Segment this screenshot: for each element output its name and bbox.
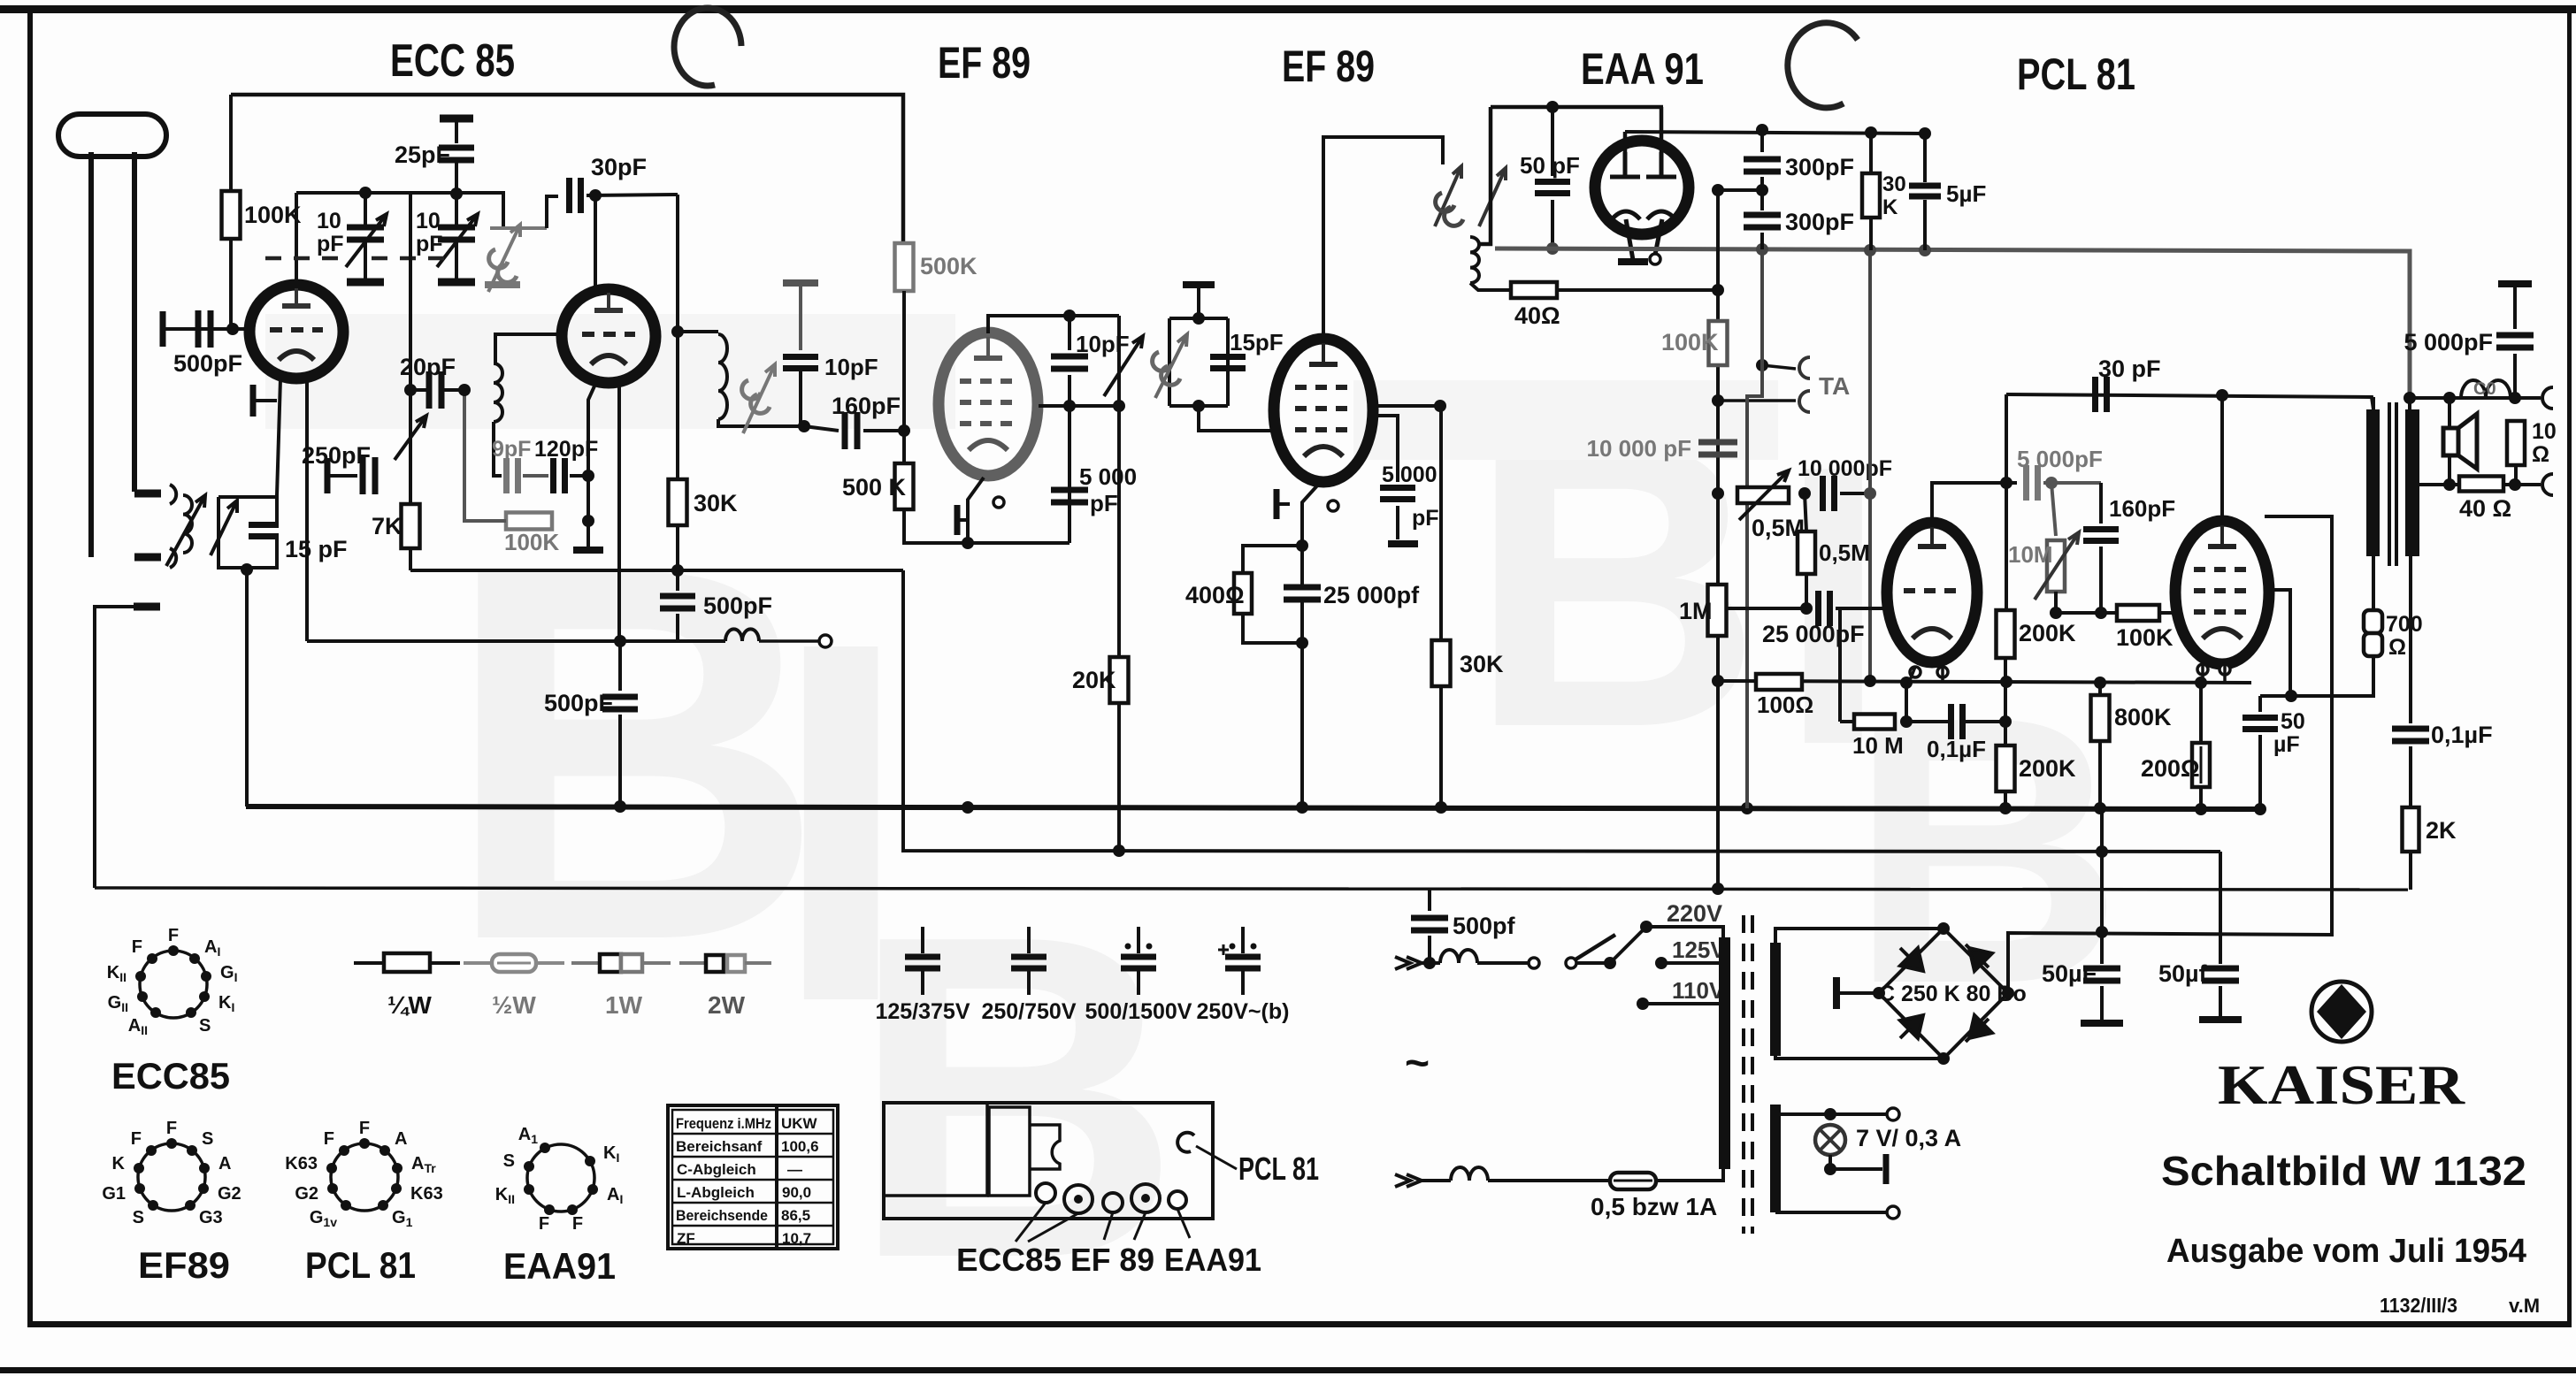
chassis inner box — [884, 1103, 987, 1196]
10M feedback arrow — [2035, 532, 2079, 600]
capacitor 25pF — [439, 148, 474, 160]
svg-text:½W: ½W — [492, 991, 536, 1019]
wire EF89a top — [988, 316, 1119, 333]
wire 25000 stems — [1300, 546, 1304, 586]
wire 250pF left lead — [329, 474, 357, 478]
wire 500pF left lead — [165, 327, 193, 331]
svg-text:F: F — [359, 1119, 370, 1138]
node 1942 cath bus — [1712, 675, 1724, 687]
svg-text:500pf: 500pf — [1453, 913, 1516, 939]
wire triode top — [1932, 483, 2017, 524]
svg-text:F: F — [324, 1129, 334, 1149]
wire 300pF bottom — [1760, 233, 1764, 249]
leader EF89 b — [1134, 1212, 1146, 1240]
legend cap 250/750V — [1011, 927, 1046, 995]
node vol top — [1712, 487, 1724, 500]
svg-text:10M: 10M — [2008, 541, 2053, 568]
svg-text:30: 30 — [1882, 172, 1906, 196]
resistor 7K — [402, 504, 420, 548]
antenna head — [58, 114, 166, 157]
wire 120pF right — [570, 474, 588, 478]
capacitor 300pF second — [1744, 215, 1781, 227]
node tank bottom — [241, 563, 253, 576]
node bus 1975 — [1741, 802, 1753, 814]
resistor 500K screen — [895, 243, 914, 291]
antenna terminal bar lower — [134, 554, 161, 562]
wire 50pF stem — [1551, 107, 1554, 176]
resistor 100K grid V1b — [506, 513, 552, 530]
resistor 30K osc — [669, 479, 687, 525]
svg-text:ECC 85: ECC 85 — [390, 35, 515, 87]
node 766 tank top — [671, 325, 684, 338]
wire 01uF right — [1963, 720, 2005, 723]
svg-text:S: S — [133, 1208, 144, 1227]
svg-text:160pF: 160pF — [2109, 495, 2175, 522]
leg triode 1 — [1909, 667, 1915, 683]
node 220V — [1640, 921, 1652, 933]
antenna coupling hooks — [170, 485, 176, 568]
svg-text:EAA 91: EAA 91 — [1581, 44, 1704, 94]
wire 300pF mid — [1760, 177, 1764, 210]
mains to switch — [1477, 961, 1528, 965]
svg-text:40 Ω: 40 Ω — [2459, 495, 2511, 522]
wire IF3 to 40ohm — [1470, 283, 1511, 290]
capacitor 20pF — [429, 371, 441, 409]
node earth 1942 — [1712, 883, 1724, 895]
resistor 100 ohm inline — [1756, 674, 1802, 690]
chassis tuner block — [989, 1107, 1030, 1196]
node tank2 top — [1192, 312, 1205, 325]
pickup coil — [725, 629, 759, 641]
capacitor 50uF second — [2202, 968, 2239, 981]
earth line long — [95, 888, 2408, 890]
earth lead wire — [95, 607, 134, 888]
wire 120pF down — [586, 476, 590, 521]
oscillator coil L2 — [494, 363, 502, 422]
chassis bar 50uF second — [2199, 1016, 2242, 1023]
svg-text:125/375V: 125/375V — [875, 999, 970, 1024]
wire 10pF anode stem — [1068, 316, 1071, 350]
svg-text:500pF: 500pF — [703, 592, 772, 619]
speaker symbol — [2443, 414, 2477, 469]
resistor 30K anode — [1432, 640, 1451, 686]
triode V1a ECC85 — [249, 285, 343, 378]
wire 766 to cap — [676, 570, 679, 591]
svg-text:10: 10 — [317, 209, 341, 233]
svg-text:C0: C0 — [2473, 379, 2496, 399]
wire 2590 up — [2267, 590, 2290, 696]
svg-text:C-Abgleich: C-Abgleich — [677, 1161, 756, 1178]
triode V1b ECC85 — [562, 289, 655, 383]
svg-text:100K: 100K — [2116, 624, 2173, 651]
tank cap lower stem — [247, 538, 277, 568]
node 200ohm top — [2195, 677, 2207, 689]
wire cathode to bus — [1300, 643, 1304, 807]
wire 500pF osc2 stem — [618, 641, 622, 691]
EAA91 right leg terminal — [1650, 254, 1660, 264]
svg-text:S: S — [202, 1129, 213, 1149]
variable capacitor arrow input tank — [211, 501, 237, 555]
svg-text:5 000pF: 5 000pF — [2403, 329, 2493, 355]
grid return stub EF89b — [1276, 502, 1290, 506]
svg-text:UKW: UKW — [781, 1115, 818, 1132]
node row 2324 — [2050, 607, 2062, 619]
legend resistor half W — [464, 961, 492, 965]
capacitor 30pF — [570, 178, 581, 213]
wire V1b grid — [495, 334, 563, 363]
svg-text:pF: pF — [416, 232, 443, 256]
svg-text:50µF: 50µF — [2042, 960, 2097, 987]
wire screen g2 line — [2008, 516, 2332, 993]
svg-text:K63: K63 — [410, 1184, 443, 1204]
svg-text:L-Abgleich: L-Abgleich — [677, 1184, 755, 1201]
leg pentode 1 — [2201, 664, 2204, 682]
legend resistor 1W — [571, 961, 600, 965]
svg-text:400Ω: 400Ω — [1185, 582, 1245, 608]
svg-text:A: A — [395, 1129, 407, 1149]
pin triode 1 — [1910, 667, 1920, 677]
capacitor 10pF trimmer 2 — [438, 227, 475, 240]
svg-text:160pF: 160pF — [832, 393, 901, 419]
leader EAA91 a — [1177, 1209, 1190, 1238]
node 110V — [1637, 998, 1649, 1010]
wire 25pF lower stem — [455, 161, 458, 226]
wire cathode V1b — [588, 380, 597, 476]
capacitor 500pF osc 2 — [602, 697, 638, 709]
node anode row 1265 — [1113, 400, 1125, 412]
node det row 2176 — [1919, 127, 1931, 140]
ground bar V1a — [250, 385, 257, 417]
svg-text:20pF: 20pF — [400, 354, 456, 380]
svg-text:110V: 110V — [1672, 977, 1725, 1004]
terminal hook speaker top — [2542, 387, 2553, 409]
terminal TA lower hook — [1799, 391, 1810, 412]
pot arrow — [1739, 470, 1789, 520]
mains choke lower — [1451, 1167, 1488, 1181]
node 20pF left — [404, 384, 417, 396]
wire 10ohm down — [2514, 465, 2518, 485]
wire 50uF1 down — [2100, 986, 2104, 1021]
IF coil arrow gray — [743, 364, 775, 433]
antenna mast right wire — [132, 152, 137, 492]
node cathode net bottom — [1296, 637, 1308, 649]
wire secondary bottom — [2409, 556, 2412, 723]
wire 125V — [1661, 961, 1723, 965]
power transformer primary winding — [1719, 937, 1730, 1169]
node bus 1472 — [1296, 801, 1308, 814]
wire 400 bottom — [1243, 614, 1302, 643]
bridge rectifier C250K80 — [1879, 929, 2008, 1059]
wire det top row — [1625, 132, 1925, 134]
svg-text:F: F — [131, 1129, 142, 1149]
resistor 10 ohm — [2507, 421, 2525, 465]
wire tank2 stem — [1197, 285, 1200, 318]
legend resistor quarter W — [354, 961, 384, 965]
wire 1M to cap — [1726, 607, 1812, 610]
trimmer1 ground bar — [347, 279, 384, 287]
pin triode 2 — [1937, 667, 1948, 677]
wire 30pF to node — [586, 195, 678, 195]
svg-text:220V: 220V — [1667, 900, 1722, 927]
wire 200K1 down — [2004, 658, 2007, 808]
EAA91 diode innards — [1610, 152, 1676, 260]
wire grid V1a — [193, 327, 249, 331]
wire anode chain down — [1439, 406, 1443, 807]
svg-text:K63: K63 — [285, 1154, 318, 1173]
wire trimmer2 bottom — [455, 242, 458, 279]
resistor 10M feedback — [2047, 540, 2065, 592]
antenna coil tuning arrow — [166, 495, 205, 566]
svg-text:500pF: 500pF — [544, 690, 613, 716]
power transformer heater winding — [1770, 1105, 1781, 1212]
wire 10pF stem — [799, 283, 802, 350]
svg-text:300pF: 300pF — [1785, 209, 1854, 235]
IF3 trimmer arrow 2 — [1479, 168, 1506, 226]
wire 160pF down — [2099, 547, 2103, 613]
border page bottom line — [0, 1367, 2576, 1373]
trimmer 2 arrow — [437, 214, 478, 267]
power transformer HT winding — [1770, 943, 1781, 1056]
tank2 frame — [1169, 317, 1228, 320]
wire V1a grid return — [256, 399, 277, 402]
terminal bar tank2 — [1183, 281, 1215, 288]
speaker stem bottom — [2448, 455, 2451, 485]
wire 30pF row — [2006, 394, 2373, 409]
antenna terminal bar upper — [134, 490, 161, 498]
bulb row — [1830, 1167, 1882, 1171]
terminal bar 500pF — [160, 311, 166, 347]
resistor 100K anode V1a — [222, 191, 241, 239]
leader ECC85 a — [1016, 1203, 1046, 1242]
resistor 200K first — [1997, 610, 2015, 658]
wire tank2 bottom — [718, 419, 804, 426]
wire row 645 — [410, 569, 903, 572]
cathode bus PCL — [1718, 681, 2251, 683]
node bridge top — [1937, 922, 1950, 935]
wire 100K bottom — [229, 239, 233, 329]
svg-text:G2: G2 — [295, 1184, 318, 1204]
wire tank2 top — [678, 330, 718, 333]
wire grid branch down — [1838, 608, 1842, 722]
wire 20K down — [1117, 703, 1121, 851]
wire 1992 down — [1760, 249, 1764, 365]
node rail 2843 — [2509, 392, 2521, 404]
node B+ speaker — [2403, 392, 2416, 404]
trimmer2 ground bar — [438, 279, 475, 287]
capacitor 10pF grid — [783, 357, 818, 369]
ganged tuning dashed link — [372, 256, 447, 261]
KAISER logo — [2311, 982, 2372, 1042]
svg-text:~: ~ — [1405, 1040, 1430, 1087]
svg-text:25pF: 25pF — [395, 141, 450, 168]
svg-text:50 pF: 50 pF — [1520, 152, 1580, 179]
svg-text:100K: 100K — [244, 202, 302, 228]
wire 700 down — [2291, 656, 2373, 696]
node cathode row a — [962, 537, 974, 549]
terminal bar 5000pF out — [2498, 280, 2532, 287]
resistor 0,5M grid — [1798, 531, 1815, 574]
wire grid row pentode — [2056, 611, 2119, 615]
node bus 1094 — [962, 801, 974, 814]
wire triode cath drop — [1905, 683, 1908, 722]
wire TA lower — [1718, 399, 1796, 402]
leg pentode 2 — [2223, 664, 2227, 682]
bridge diode bottom-left — [1900, 1015, 1923, 1038]
IF3 trimmer arrow 1 — [1435, 166, 1461, 226]
wire to fuse — [1488, 1179, 1610, 1182]
wire 200ohm down — [2199, 787, 2203, 809]
svg-text:40Ω: 40Ω — [1514, 302, 1560, 329]
terminal bar 250pF — [325, 458, 331, 493]
svg-text:0,5M: 0,5M — [1819, 539, 1870, 566]
switch lever — [1575, 935, 1615, 959]
svg-text:200K: 200K — [2019, 620, 2076, 646]
capacitor 5000pF screen1 — [1051, 490, 1088, 502]
wire V1b anode up — [594, 195, 597, 289]
wire det mid link — [1718, 190, 1762, 889]
svg-text:200K: 200K — [2019, 755, 2076, 782]
capacitor 0,1uF grid — [1951, 704, 1963, 739]
wire 50uF2 stem — [2219, 852, 2222, 964]
svg-text:pF: pF — [1090, 490, 1118, 516]
svg-text:F: F — [539, 1214, 549, 1234]
svg-text:F: F — [166, 1119, 177, 1138]
node grid EF89a — [898, 424, 910, 437]
wire 100K to tube — [2159, 611, 2176, 615]
wire 10M left — [1840, 720, 1854, 723]
bulb down — [1828, 1155, 1832, 1169]
svg-text:Ω: Ω — [2388, 635, 2406, 660]
heater earth bar — [1883, 1154, 1890, 1184]
node bus 2374 — [2094, 802, 2106, 814]
output transformer primary winding — [2366, 409, 2380, 556]
wire pickup lead — [759, 639, 819, 643]
potentiometer 0,5M — [1737, 487, 1789, 503]
node tank2 bottom — [1192, 400, 1205, 412]
resistor 40 ohm speaker — [2459, 477, 2503, 492]
svg-text:500 K: 500 K — [842, 474, 907, 501]
capacitor 500pF osc 1 — [660, 596, 695, 608]
wire 5uF down — [1923, 200, 1927, 250]
switch contact 1 — [1529, 958, 1539, 968]
svg-text:TA: TA — [1819, 372, 1850, 400]
node 25000 left — [1800, 602, 1813, 615]
capacitor 25000pF cathode — [1284, 587, 1321, 600]
node rail 2769 — [2443, 392, 2456, 404]
node trimmer1 top — [359, 187, 372, 199]
decor watermark bands — [265, 314, 1778, 460]
node 962 1265 — [1113, 845, 1125, 857]
leader EF89 a — [1104, 1212, 1113, 1240]
node cath 2155 — [1900, 677, 1913, 689]
svg-text:10: 10 — [416, 209, 441, 233]
wire V1a anode down — [305, 380, 309, 641]
socket diagram PCL81 — [285, 1119, 442, 1229]
node pot right — [1798, 487, 1811, 500]
wire AVC chain — [409, 193, 412, 570]
svg-text:10 M: 10 M — [1852, 732, 1904, 759]
node det row 2115 — [1865, 126, 1877, 139]
wire 9pF to 120pF — [523, 474, 548, 478]
svg-text:1M: 1M — [1679, 598, 1713, 624]
svg-text:250/750V: 250/750V — [981, 999, 1076, 1024]
wire cap to row — [676, 614, 679, 641]
chassis tube hole 5 — [1169, 1191, 1186, 1209]
wire tank2 to grid — [1199, 406, 1275, 431]
node bus det 2114 — [1864, 244, 1876, 256]
bridge diode top-right — [1966, 944, 1992, 971]
svg-text:0,1µF: 0,1µF — [2431, 722, 2493, 748]
chassis tube hole 4 — [1131, 1184, 1160, 1212]
tank2 left leg — [1168, 318, 1171, 406]
svg-text:10: 10 — [2532, 419, 2557, 444]
node det row 1992 — [1756, 124, 1768, 136]
bridge diode top-left — [1900, 948, 1923, 971]
wire V1a cathode — [277, 378, 280, 495]
node 160pF left — [798, 420, 810, 432]
node bus 2267 — [1999, 802, 2012, 814]
node 5000pF left — [2000, 477, 2012, 489]
svg-text:v.M: v.M — [2509, 1295, 2540, 1317]
svg-text:500/1500V: 500/1500V — [1085, 999, 1192, 1024]
selector slant — [1610, 927, 1646, 963]
wire 25000 stem lower — [1300, 600, 1304, 643]
wire 25pF stem — [455, 118, 458, 143]
wire 10M2 stem — [2051, 483, 2056, 536]
svg-text:10 000pF: 10 000pF — [1798, 456, 1892, 481]
svg-text:Bereichsanf: Bereichsanf — [676, 1138, 763, 1155]
svg-text:1132/III/3: 1132/III/3 — [2380, 1294, 2457, 1317]
leader ECC85 b — [1028, 1213, 1078, 1242]
svg-text:S: S — [503, 1151, 515, 1171]
pentode V2 EF89 first — [939, 333, 1038, 476]
bus detector gray — [1495, 248, 2410, 398]
speaker field coil CO — [2461, 380, 2511, 398]
wire EAA plate right — [1660, 107, 1664, 152]
node bridge right — [2002, 987, 2014, 999]
wire anode row — [1039, 404, 1119, 408]
legend cap 125/375V — [905, 927, 940, 995]
wire 766 vertical — [676, 195, 679, 478]
svg-text:5 000: 5 000 — [1382, 462, 1437, 487]
EAA loop left — [1478, 107, 1491, 244]
node rail2 2843 — [2509, 478, 2521, 491]
svg-text:G2: G2 — [218, 1184, 241, 1204]
wire trim vertical — [1117, 316, 1121, 406]
wire 10M2 down — [2054, 592, 2058, 613]
switch contact 2 — [1566, 958, 1576, 968]
node rail2 2769 — [2443, 478, 2456, 491]
svg-text:30pF: 30pF — [591, 154, 647, 180]
resistor 100K det — [1709, 321, 1728, 365]
wire primary top — [2372, 397, 2375, 409]
trimmer 250pF arrow — [395, 416, 426, 460]
terminal heater bottom — [1887, 1206, 1899, 1219]
capacitor 10000pF det — [1698, 442, 1737, 455]
svg-text:Schaltbild W 1132: Schaltbild W 1132 — [2161, 1148, 2526, 1194]
node cathode EF89b — [1296, 539, 1308, 552]
EAA91 left leg bar — [1618, 258, 1648, 265]
svg-text:50: 50 — [2281, 709, 2305, 734]
svg-text:86,5: 86,5 — [781, 1207, 810, 1224]
socket diagram EAA91 — [495, 1125, 624, 1234]
svg-text:300pF: 300pF — [1785, 154, 1854, 180]
wire TA upper — [1762, 365, 1796, 369]
wire 01uF to 2K — [2409, 746, 2412, 807]
wire 30K det down — [1869, 218, 1873, 250]
svg-text:—: — — [787, 1161, 802, 1178]
wire EF89a cathode — [968, 478, 984, 543]
